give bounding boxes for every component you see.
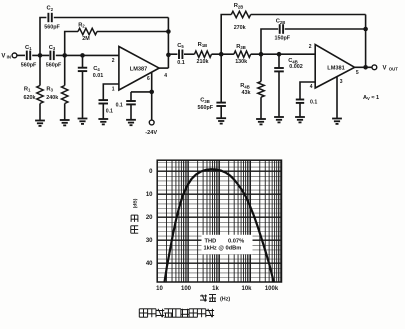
svg-text:560pF: 560pF [198,105,214,111]
wire [40,18,46,56]
node B [62,53,67,58]
svg-text:0.1: 0.1 [106,108,113,114]
graph major vertical gridlines [188,160,250,282]
wire [159,18,168,69]
svg-text:40: 40 [146,261,153,267]
annotation THD box [202,235,253,255]
ground [35,121,45,126]
graph minor horizontal gridlines [157,163,281,278]
svg-text:(dB): (dB) [133,198,139,208]
capacitor C2 [44,6,60,31]
svg-text:43k: 43k [242,90,251,96]
ground [256,119,266,124]
capacitor C3B [198,54,226,118]
resistor R3 [46,55,68,120]
capacitor 0.1 supply bypass U1 [116,101,136,120]
node C [80,53,85,58]
node output B [363,65,368,70]
svg-text:5: 5 [356,70,359,76]
capacitor C4B [274,54,303,117]
ground [332,119,342,124]
svg-text:0.1: 0.1 [310,99,317,105]
capacitor C4 [78,55,103,118]
svg-text:R1B: R1B [198,42,208,48]
capacitor C1 [21,45,37,69]
graph minor vertical gridlines [167,160,281,282]
svg-text:100k: 100k [265,286,279,292]
y tick labels [146,169,153,267]
wire [355,15,372,68]
node E [259,52,264,57]
svg-text:30: 30 [146,238,153,244]
svg-text:THD: THD [205,239,217,245]
svg-text:C2B: C2B [276,19,286,25]
resistor R1 [24,55,44,120]
wire [97,31,168,33]
caption: voice filter frequency response [139,309,214,317]
svg-text:LM381: LM381 [327,65,344,71]
op-amp U2 [315,45,354,89]
resistor R3B [234,44,251,65]
op-amp U1 [119,47,159,91]
svg-text:C2: C2 [47,6,54,12]
node A [38,53,43,58]
capacitor C3 [46,45,62,69]
svg-text:C3B: C3B [200,98,210,104]
wire [56,54,119,56]
svg-text:R2B: R2B [234,3,244,9]
wire [54,17,169,19]
svg-text:C1: C1 [25,45,32,51]
svg-text:270k: 270k [234,25,246,31]
capacitor C5 [177,43,185,66]
svg-text:C3: C3 [49,45,56,51]
svg-text:1kHz @ 0dBm: 1kHz @ 0dBm [204,245,242,251]
node F [277,52,282,57]
wire [131,72,152,120]
ground [216,118,226,123]
wire [32,54,49,56]
svg-text:560pF: 560pF [21,63,37,69]
response curve [165,169,274,282]
svg-text:10: 10 [146,192,153,198]
resistor R2B [231,3,250,31]
node D [219,52,224,57]
wire [251,14,366,16]
ground [60,120,70,125]
wire [285,28,366,30]
svg-text:LM387: LM387 [130,66,147,72]
ground [98,119,108,124]
wire [17,54,25,56]
wire [65,32,78,56]
node output A [166,53,171,58]
wire [261,29,278,54]
svg-text:R1: R1 [24,86,31,92]
svg-text:0.002: 0.002 [289,64,303,70]
svg-text:210k: 210k [197,59,209,65]
svg-text:2M: 2M [82,36,90,42]
svg-text:130k: 130k [235,59,247,65]
terminal VIN [1,53,17,60]
svg-text:0.01: 0.01 [93,73,104,79]
wire [300,82,315,100]
wire [251,53,316,55]
ground [126,120,136,125]
svg-text:560pF: 560pF [44,24,60,30]
node feedback C2B [363,27,368,32]
svg-text:3: 3 [340,79,343,85]
ground [295,117,305,122]
x-axis title (frequency Hz) [200,295,230,303]
svg-text:1k: 1k [212,286,219,292]
wire [103,84,119,100]
svg-text:10k: 10k [241,286,252,292]
wire [336,77,338,119]
svg-text:V: V [382,66,386,72]
svg-text:0.07%: 0.07% [228,239,244,245]
svg-text:10: 10 [156,286,163,292]
y-axis title (gain dB) [131,198,139,233]
terminal -24V [145,120,157,136]
svg-text:C5: C5 [177,43,184,49]
capacitor C2B [275,19,291,42]
svg-text:560pF: 560pF [46,63,62,69]
svg-text:0.1: 0.1 [177,60,185,66]
svg-text:100: 100 [181,286,192,292]
svg-text:-24V: -24V [145,130,157,136]
svg-text:R4B: R4B [240,83,250,89]
svg-text:OUT: OUT [389,67,398,72]
wire [184,53,195,55]
x tick labels [156,286,279,292]
svg-text:6: 6 [147,76,150,82]
wire [168,53,177,55]
svg-text:(Hz): (Hz) [220,297,230,303]
capacitor 0.1 bypass U2 [296,99,318,117]
svg-text:R3: R3 [46,86,53,92]
ground [78,119,88,124]
ground [274,117,284,122]
svg-text:240k: 240k [46,95,58,101]
graph frame [157,160,281,282]
svg-text:620k: 620k [24,95,36,101]
svg-text:1: 1 [112,86,115,92]
graph major horizontal gridlines [157,171,281,263]
svg-text:0.1: 0.1 [116,103,123,109]
svg-text:AV ≈ 1: AV ≈ 1 [363,95,379,101]
svg-text:4: 4 [310,84,313,90]
wire [212,53,234,55]
svg-text:2: 2 [309,44,312,50]
resistor R2 [78,22,97,42]
svg-text:4: 4 [164,73,167,79]
terminal VOUT [372,65,398,72]
svg-text:V: V [1,54,5,60]
svg-text:R2: R2 [78,22,85,28]
capacitor 0.1 bypass U1 pin1 [99,100,114,119]
svg-text:IN: IN [7,55,11,60]
wire [221,15,231,55]
svg-text:C4: C4 [93,66,100,72]
svg-text:R3B: R3B [236,44,246,50]
node pin6 [149,90,154,95]
svg-text:150pF: 150pF [275,35,291,41]
resistor R4B [240,54,264,119]
node feedback R2 [166,29,171,34]
resistor R1B [195,42,212,65]
svg-text:2: 2 [112,58,115,64]
svg-text:20: 20 [146,215,153,221]
